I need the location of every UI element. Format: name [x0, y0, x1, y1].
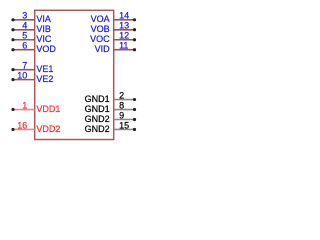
svg-text:13: 13 — [119, 21, 129, 31]
pin 13 (VOB) wire — [114, 28, 136, 31]
svg-text:3: 3 — [22, 11, 27, 21]
svg-text:16: 16 — [17, 120, 27, 130]
pin 3 (VIA) wire — [11, 18, 34, 21]
pin 1 (VDD1) wire — [11, 108, 34, 111]
pin 16 (VDD2) wire — [11, 128, 34, 131]
pin 12 (VOC) wire — [114, 38, 136, 41]
svg-text:VIB: VIB — [36, 24, 51, 34]
svg-text:GND2: GND2 — [85, 124, 110, 134]
svg-text:VID: VID — [95, 44, 111, 54]
svg-text:1: 1 — [22, 100, 27, 110]
svg-text:VE1: VE1 — [36, 64, 53, 74]
svg-text:VDD1: VDD1 — [36, 104, 60, 114]
svg-text:GND1: GND1 — [85, 94, 110, 104]
svg-text:15: 15 — [119, 120, 129, 130]
svg-text:6: 6 — [22, 41, 27, 51]
svg-text:VOC: VOC — [90, 34, 110, 44]
svg-text:4: 4 — [22, 21, 27, 31]
svg-text:VOB: VOB — [91, 24, 110, 34]
svg-text:11: 11 — [119, 41, 128, 51]
pin 2 (GND1) wire — [114, 98, 136, 101]
svg-text:GND1: GND1 — [85, 104, 110, 114]
pin 6 (VOD) wire — [11, 48, 34, 51]
pin 14 (VOA) wire — [114, 18, 136, 21]
svg-text:2: 2 — [119, 90, 124, 100]
svg-text:14: 14 — [119, 11, 129, 21]
svg-text:10: 10 — [17, 71, 27, 81]
IC body outline — [35, 10, 114, 139]
pin 10 (VE2) wire — [11, 78, 34, 81]
pin 7 (VE1) wire — [11, 68, 34, 71]
svg-text:VOD: VOD — [36, 44, 56, 54]
svg-text:12: 12 — [119, 31, 129, 41]
pin 8 (GND1) wire — [114, 108, 136, 111]
svg-text:VIA: VIA — [36, 14, 51, 24]
pin 15 (GND2) wire — [114, 128, 136, 131]
svg-text:8: 8 — [119, 100, 124, 110]
svg-text:9: 9 — [119, 110, 124, 120]
svg-text:VE2: VE2 — [36, 74, 53, 84]
svg-text:VIC: VIC — [36, 34, 52, 44]
svg-text:VDD2: VDD2 — [36, 124, 60, 134]
svg-text:5: 5 — [22, 31, 27, 41]
pin 4 (VIB) wire — [11, 28, 34, 31]
svg-text:7: 7 — [22, 61, 27, 71]
svg-text:VOA: VOA — [91, 14, 110, 24]
pin 5 (VIC) wire — [11, 38, 34, 41]
pin 11 (VID) wire — [114, 48, 136, 51]
svg-text:GND2: GND2 — [85, 114, 110, 124]
pin 9 (GND2) wire — [114, 118, 136, 121]
